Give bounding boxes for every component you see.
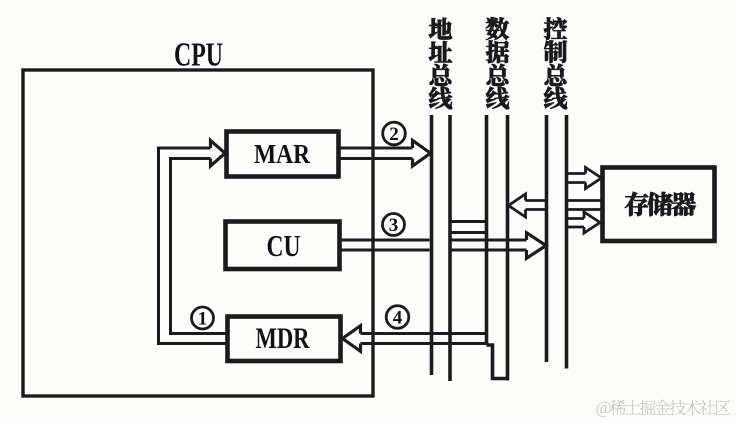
address bus lines — [432, 115, 451, 381]
svg-text:MAR: MAR — [254, 139, 310, 169]
node 4 circled — [386, 306, 409, 329]
control bus lines — [547, 115, 567, 369]
arrow control bus to memory (bottom) — [567, 219, 585, 228]
svg-text:CU: CU — [267, 228, 301, 263]
watermark — [597, 402, 611, 417]
wire 1: MDR to MAR loop — [159, 148, 228, 344]
label 地址总线 address bus — [429, 18, 452, 40]
svg-text:2: 2 — [389, 124, 399, 145]
wire 2: MAR to address bus — [341, 148, 413, 159]
stub wire between address bus and data bus — [450, 222, 487, 233]
svg-text:1: 1 — [198, 309, 208, 330]
label 数据总线 data bus — [486, 17, 509, 40]
wire 3: CU to control bus — [341, 240, 527, 250]
arrow memory to data bus (middle) — [526, 201, 547, 210]
svg-text:CPU: CPU — [174, 37, 223, 74]
CPU box — [23, 70, 373, 396]
svg-text:3: 3 — [389, 215, 399, 236]
label 控制总线 control bus — [544, 17, 567, 40]
node 2 circled — [383, 122, 406, 145]
svg-text:MDR: MDR — [256, 322, 310, 355]
memory box 存储器 — [603, 168, 715, 242]
data bus lines — [487, 115, 508, 381]
register MAR — [227, 132, 339, 177]
node 3 circled — [383, 214, 405, 236]
arrow control bus to memory (top) — [567, 174, 586, 183]
register MDR — [228, 317, 341, 362]
wire 4: data bus to MDR — [361, 334, 487, 344]
control unit CU — [226, 222, 340, 270]
node 1 circled — [192, 307, 214, 329]
svg-text:4: 4 — [393, 308, 403, 329]
